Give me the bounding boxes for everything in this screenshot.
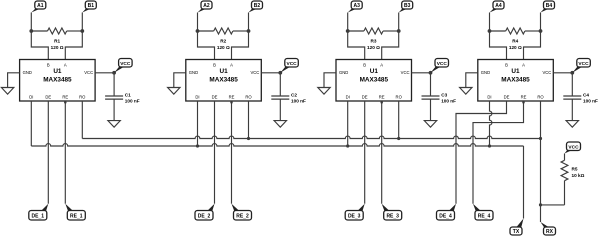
svg-text:C3: C3 xyxy=(441,92,447,97)
svg-text:10 kΩ: 10 kΩ xyxy=(572,173,585,178)
svg-text:DE: DE xyxy=(362,95,368,100)
wire U4 GND pin to ground xyxy=(466,73,478,88)
junction R5 bottom node xyxy=(539,203,542,206)
net flag RE_1 xyxy=(65,204,85,220)
svg-text:MAX3485: MAX3485 xyxy=(501,76,530,83)
svg-text:120 Ω: 120 Ω xyxy=(51,45,64,50)
junction RO bus at U2 xyxy=(247,137,250,140)
net flag B4 xyxy=(541,1,555,13)
svg-text:DI: DI xyxy=(195,95,199,100)
svg-text:DE_2: DE_2 xyxy=(198,213,211,219)
net flag DE_4 xyxy=(437,204,457,220)
svg-text:R4: R4 xyxy=(512,39,518,44)
net flag A3 xyxy=(348,1,363,13)
svg-text:TX: TX xyxy=(513,229,520,235)
svg-text:120 Ω: 120 Ω xyxy=(217,45,230,50)
svg-text:DE_3: DE_3 xyxy=(348,213,361,219)
wire RE pin U2 down xyxy=(231,101,233,204)
svg-text:A1: A1 xyxy=(37,3,44,9)
wire RE pin U3 down xyxy=(381,101,383,204)
wire U4 VCC pin to VCC node xyxy=(553,72,572,74)
capacitor C1 100 nF bypass xyxy=(105,73,140,121)
wire U1 VCC pin to VCC node xyxy=(95,72,114,74)
svg-text:RO: RO xyxy=(245,95,252,100)
net flag DE_3 xyxy=(345,204,365,220)
svg-text:RE: RE xyxy=(379,95,385,100)
svg-text:DE: DE xyxy=(212,95,218,100)
power flag VCC block 3 xyxy=(431,59,449,73)
svg-text:100 nF: 100 nF xyxy=(125,99,140,104)
wire net A2 to pin B of U2 xyxy=(198,13,215,60)
junction node B4 at R4 right xyxy=(539,29,543,33)
junction node B2 at R2 right xyxy=(247,29,251,33)
wire DI pin U2 to DI bus xyxy=(197,101,199,146)
svg-text:DI: DI xyxy=(346,95,350,100)
junction RO bus at U3 xyxy=(397,137,400,140)
svg-text:GND: GND xyxy=(481,70,490,75)
wire RO pin U3 to RO bus xyxy=(398,101,400,139)
net flag A1 xyxy=(31,1,46,13)
wire DI pin U4 to DI bus (hops) xyxy=(490,101,492,146)
junction node B1 at R1 right xyxy=(80,29,84,33)
pin RE inversion dot U2 xyxy=(230,101,233,104)
wire net B4 to pin A of U4 xyxy=(524,13,541,60)
svg-text:R5: R5 xyxy=(572,167,578,172)
svg-text:VCC: VCC xyxy=(568,144,579,150)
wire net A1 to pin B of U1 xyxy=(31,13,48,60)
svg-text:DE: DE xyxy=(504,95,510,100)
svg-text:R1: R1 xyxy=(54,39,60,44)
svg-text:U1: U1 xyxy=(53,68,62,75)
pin RE inversion dot U3 xyxy=(380,101,383,104)
svg-text:A: A xyxy=(64,63,67,68)
svg-text:VCC: VCC xyxy=(250,70,259,75)
junction DI bus at U4 xyxy=(488,144,491,147)
svg-text:R3: R3 xyxy=(371,39,377,44)
net flag B1 xyxy=(82,1,96,13)
wire U1 GND pin to ground xyxy=(8,73,20,88)
wire DI bus (TX net) xyxy=(31,144,523,146)
svg-text:GND: GND xyxy=(339,70,348,75)
svg-text:B: B xyxy=(505,63,508,68)
svg-text:RX: RX xyxy=(546,229,554,235)
svg-text:B4: B4 xyxy=(546,3,553,9)
wire net A4 to pin B of U4 xyxy=(490,13,507,60)
svg-text:MAX3485: MAX3485 xyxy=(360,76,389,83)
wire R5 bottom to RO/RX node xyxy=(541,204,565,206)
junction VCC node block 3 xyxy=(429,71,433,75)
wire net B1 to pin A of U1 xyxy=(65,13,82,60)
wire U2 VCC pin to VCC node xyxy=(261,72,280,74)
wire DE pin U1 down xyxy=(47,101,49,204)
wire RE pin U4 rerouted left and down xyxy=(473,101,524,204)
wire RO pin U2 to RO bus xyxy=(248,101,250,139)
svg-text:B: B xyxy=(47,63,50,68)
svg-text:120 Ω: 120 Ω xyxy=(367,45,380,50)
svg-text:100 nF: 100 nF xyxy=(291,99,306,104)
svg-text:VCC: VCC xyxy=(542,70,551,75)
svg-text:RE_3: RE_3 xyxy=(386,213,399,219)
ground symbol at U2 GND xyxy=(168,88,180,95)
svg-text:R2: R2 xyxy=(220,39,226,44)
svg-text:A3: A3 xyxy=(353,3,360,9)
wire net B3 to pin A of U3 xyxy=(382,13,399,60)
op-amp U1 MAX3485 transceiver body xyxy=(20,60,96,102)
svg-text:GND: GND xyxy=(189,70,198,75)
junction node A3 at R3 left xyxy=(346,29,350,33)
svg-text:DI: DI xyxy=(29,95,33,100)
wire DE pin U4 rerouted left and down xyxy=(456,101,507,204)
wire U3 VCC pin to VCC node xyxy=(412,72,431,74)
svg-text:GND: GND xyxy=(23,70,32,75)
junction node A1 at R1 left xyxy=(29,29,33,33)
junction DI bus at U2 xyxy=(196,144,199,147)
net flag B3 xyxy=(399,1,413,13)
junction VCC node block 1 xyxy=(112,71,116,75)
junction node A4 at R4 left xyxy=(488,29,492,33)
svg-text:DE_1: DE_1 xyxy=(32,213,45,219)
capacitor C4 100 nF bypass xyxy=(563,73,598,121)
wire DE pin U3 down xyxy=(364,101,366,204)
net flag TX xyxy=(510,219,524,236)
svg-text:RE: RE xyxy=(229,95,235,100)
net flag DE_2 xyxy=(195,204,215,220)
svg-text:A: A xyxy=(380,63,383,68)
svg-text:100 nF: 100 nF xyxy=(583,99,598,104)
svg-text:RE: RE xyxy=(62,95,68,100)
capacitor C3 100 nF bypass xyxy=(422,73,457,121)
svg-text:RO: RO xyxy=(537,95,544,100)
svg-text:C4: C4 xyxy=(583,92,589,97)
wire net B2 to pin A of U2 xyxy=(232,13,249,60)
op-amp U4 MAX3485 transceiver body xyxy=(478,60,554,102)
svg-text:B1: B1 xyxy=(88,3,95,9)
resistor R1 120 ohm termination xyxy=(31,28,82,50)
net flag B2 xyxy=(249,1,263,13)
net flag A4 xyxy=(490,1,505,13)
svg-text:MAX3485: MAX3485 xyxy=(43,76,72,83)
net flag A2 xyxy=(198,1,213,13)
wire U2 GND pin to ground xyxy=(174,73,186,88)
wire U3 GND pin to ground xyxy=(324,73,336,88)
wire net A3 to pin B of U3 xyxy=(348,13,365,60)
wire DI pin U3 to DI bus xyxy=(347,101,349,146)
svg-text:DE: DE xyxy=(45,95,51,100)
svg-text:VCC: VCC xyxy=(401,70,410,75)
svg-text:VCC: VCC xyxy=(437,61,448,67)
svg-text:VCC: VCC xyxy=(578,61,589,67)
ground symbol at C1 xyxy=(108,121,120,128)
resistor R2 120 ohm termination xyxy=(198,28,249,50)
svg-text:A: A xyxy=(230,63,233,68)
pin RE inversion dot U4 xyxy=(522,101,525,104)
svg-text:U1: U1 xyxy=(511,68,520,75)
svg-text:RE: RE xyxy=(521,95,527,100)
wire RO pin U1 to RO bus xyxy=(81,101,83,139)
net flag RX xyxy=(541,222,556,235)
ground symbol at U4 GND xyxy=(460,88,472,95)
svg-text:B2: B2 xyxy=(254,3,261,9)
wire TX drop xyxy=(523,146,525,219)
svg-text:A2: A2 xyxy=(203,3,210,9)
svg-text:C1: C1 xyxy=(125,92,131,97)
svg-text:RO: RO xyxy=(79,95,86,100)
svg-text:MAX3485: MAX3485 xyxy=(209,76,238,83)
pin RE inversion dot U1 xyxy=(64,101,67,104)
power flag VCC block 4 xyxy=(572,59,590,73)
junction RO bus at U4 xyxy=(539,137,542,140)
svg-text:A4: A4 xyxy=(495,3,502,9)
op-amp U3 MAX3485 transceiver body xyxy=(336,60,412,102)
svg-text:B3: B3 xyxy=(404,3,411,9)
svg-text:VCC: VCC xyxy=(287,61,298,67)
svg-text:A: A xyxy=(522,63,525,68)
capacitor C2 100 nF bypass xyxy=(271,73,306,121)
ground symbol at U1 GND xyxy=(1,88,13,95)
resistor R5 10 kohm pull-up xyxy=(561,154,585,205)
op-amp U2 MAX3485 transceiver body xyxy=(186,60,261,102)
svg-text:VCC: VCC xyxy=(120,61,131,67)
svg-text:RE_1: RE_1 xyxy=(70,213,83,219)
net flag RE_4 xyxy=(473,204,493,220)
svg-text:B: B xyxy=(213,63,216,68)
ground symbol at C2 xyxy=(274,121,286,128)
svg-text:U1: U1 xyxy=(220,68,229,75)
svg-text:100 nF: 100 nF xyxy=(441,99,456,104)
power flag VCC block 2 xyxy=(280,59,298,73)
junction node A2 at R2 left xyxy=(196,29,200,33)
wire DE pin U2 down xyxy=(214,101,216,204)
svg-text:B: B xyxy=(363,63,366,68)
junction DI bus at U3 xyxy=(346,144,349,147)
power flag VCC block 1 xyxy=(114,59,132,73)
net flag RE_2 xyxy=(232,204,252,220)
wire RO bus (RX net) xyxy=(82,136,540,138)
svg-text:RE_2: RE_2 xyxy=(236,213,249,219)
svg-text:U1: U1 xyxy=(370,68,379,75)
svg-text:VCC: VCC xyxy=(84,70,93,75)
junction VCC node block 4 xyxy=(570,71,574,75)
svg-text:120 Ω: 120 Ω xyxy=(509,45,522,50)
svg-text:RE_4: RE_4 xyxy=(478,213,491,219)
net flag DE_1 xyxy=(29,204,49,220)
svg-text:DI: DI xyxy=(487,95,491,100)
net flag RE_3 xyxy=(382,204,402,220)
svg-text:DE_4: DE_4 xyxy=(439,213,452,219)
power flag VCC at R5 xyxy=(565,142,581,154)
junction node B3 at R3 right xyxy=(397,29,401,33)
svg-text:RO: RO xyxy=(396,95,403,100)
ground symbol at U3 GND xyxy=(318,88,330,95)
wire DI pin U1 to DI bus xyxy=(30,101,32,146)
ground symbol at C4 xyxy=(566,121,578,128)
svg-text:C2: C2 xyxy=(291,92,297,97)
resistor R4 120 ohm termination xyxy=(490,28,541,50)
wire RE pin U1 down xyxy=(64,101,66,204)
resistor R3 120 ohm termination xyxy=(348,28,399,50)
ground symbol at C3 xyxy=(424,121,436,128)
junction VCC node block 2 xyxy=(278,71,282,75)
wire RO pin U4 down to RX node xyxy=(540,101,542,222)
